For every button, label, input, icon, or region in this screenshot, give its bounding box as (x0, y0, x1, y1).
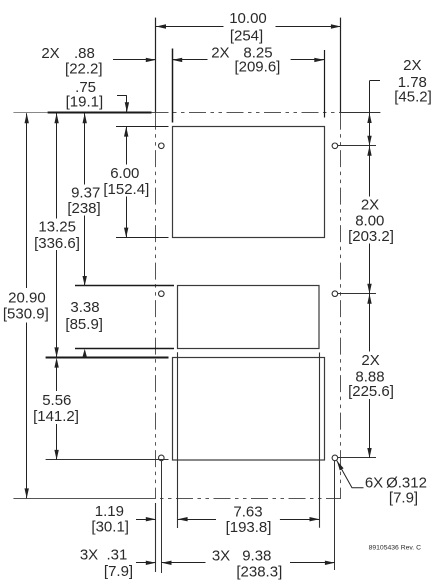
svg-text:3.38: 3.38 (70, 299, 99, 316)
right vertical centerline (340, 18, 342, 499)
label 2X 8.00 [203.2] (348, 197, 394, 246)
label 1.19 [30.1] (91, 503, 129, 536)
svg-text:2X: 2X (361, 197, 379, 214)
svg-text:[238.3]: [238.3] (236, 564, 282, 581)
extension line 8.25 right (vertical above rect1) (324, 50, 326, 118)
cutout rectangle 1 (top, 8.25 x 6.00) (173, 127, 325, 238)
svg-text:6.00: 6.00 (110, 165, 139, 182)
svg-text:[336.6]: [336.6] (34, 235, 80, 252)
svg-text:10.00: 10.00 (229, 10, 267, 27)
svg-text:[152.4]: [152.4] (103, 181, 149, 198)
label 3.38 [85.9] (65, 299, 103, 333)
extension line right hole row2 (338, 293, 376, 295)
extension line right hole row1 (338, 145, 376, 147)
extension line rect3 bottom to left (46, 459, 169, 461)
svg-text:89105436 Rev. C: 89105436 Rev. C (369, 544, 421, 551)
label 10.00 [254] (229, 10, 267, 45)
svg-text:[238]: [238] (67, 200, 100, 217)
leader .75 (117, 96, 129, 113)
label 20.90 [530.9] (3, 290, 49, 323)
svg-text:[85.9]: [85.9] (65, 316, 103, 333)
svg-text:[7.9]: [7.9] (389, 490, 418, 507)
extension line rect1 bottom to left (116, 237, 169, 239)
svg-text:[254]: [254] (230, 28, 263, 45)
extension line right hole column down (334, 461, 336, 570)
dim line 1.19 / 7.63 horizontal (136, 517, 320, 521)
svg-text:[193.8]: [193.8] (226, 519, 272, 536)
svg-text:3X: 3X (212, 548, 230, 565)
extension line from rect2 left corner down (7.63 dim) (177, 352, 179, 528)
top reference edge line (13, 112, 151, 114)
bottom reference edge line (13, 498, 151, 500)
label .75 [19.1] (66, 79, 104, 111)
svg-text:2X: 2X (361, 352, 379, 369)
label 5.56 [141.2] (33, 392, 79, 425)
svg-text:2X: 2X (403, 57, 421, 74)
svg-text:.88: .88 (74, 45, 95, 62)
cutout rectangle 2 (middle, 7.63 x 3.38) (178, 286, 320, 349)
extension line rect1 top to left (116, 126, 169, 128)
svg-text:[22.2]: [22.2] (65, 60, 103, 77)
label 2X 8.25 [209.6] (211, 45, 280, 76)
extension line right hole row3 (338, 457, 376, 459)
svg-text:[225.6]: [225.6] (348, 383, 394, 400)
svg-text:1.19: 1.19 (95, 503, 124, 520)
label 3X 9.38 [238.3] (212, 548, 282, 581)
svg-text:[203.2]: [203.2] (348, 228, 394, 245)
svg-text:[530.9]: [530.9] (3, 306, 49, 323)
hole mid-right (332, 291, 338, 297)
label 7.63 [193.8] (226, 504, 272, 536)
label 6.00 [152.4] (103, 165, 149, 198)
svg-text:[30.1]: [30.1] (91, 519, 129, 536)
extension line rect2 bottom to left (75, 348, 174, 350)
left vertical centerline (155, 18, 157, 572)
svg-text:[19.1]: [19.1] (66, 94, 104, 111)
dim line .88 horizontal (113, 58, 156, 62)
hole bottom-right (332, 455, 338, 461)
svg-text:[209.6]: [209.6] (234, 59, 280, 76)
label 3X .31 [7.9] (80, 547, 133, 581)
svg-text:[7.9]: [7.9] (104, 563, 133, 580)
svg-text:[141.2]: [141.2] (33, 408, 79, 425)
dim line 10.00 horizontal (156, 24, 341, 28)
dim line 20.90 vertical (25, 113, 29, 498)
label 13.25 [336.6] (34, 219, 80, 253)
svg-text:[45.2]: [45.2] (394, 89, 432, 106)
svg-text:2X: 2X (41, 45, 59, 62)
label 2X 1.78 [45.2] (394, 57, 432, 105)
dim line right column 1.78/8.00/8.88 (367, 81, 380, 459)
label 2X 8.88 [225.6] (348, 352, 394, 400)
hole top-left (159, 143, 165, 149)
dim line 9.37 vertical (83, 113, 87, 286)
hole bottom-left (159, 455, 165, 461)
dim arrow 3.38 bottom (outside, squeezed) (83, 349, 87, 357)
svg-text:9.38: 9.38 (242, 548, 271, 565)
svg-text:6X: 6X (365, 475, 383, 492)
svg-text:5.56: 5.56 (42, 392, 71, 409)
cutout rectangle 3 (bottom, 8.25 x 5.56) (173, 358, 325, 461)
leader 6X holes (337, 461, 364, 488)
hole mid-left (159, 291, 165, 297)
label 9.37 [238] (67, 185, 100, 217)
extension line rect3 top to left (thick) (46, 357, 169, 359)
extension line 8.25 left (vertical above rect1) (172, 49, 174, 123)
top horizontal centerline (dash-dot) (152, 112, 341, 114)
svg-text:20.90: 20.90 (8, 290, 46, 307)
hole top-right (332, 143, 338, 149)
bottom horizontal centerline (dash-dot) (151, 498, 341, 500)
extension line rect2 top to left (75, 285, 174, 287)
extension line from rect2 right corner down (7.63 dim) (319, 353, 321, 528)
label 2X .88 [22.2] (41, 45, 102, 78)
svg-text:.31: .31 (106, 547, 127, 564)
dim line .31 / 9.38 horizontal (136, 561, 335, 565)
label 6X dia .312 [7.9] (365, 475, 427, 507)
extension line left hole column down (161, 461, 163, 573)
dim line 8.25 horizontal (172, 58, 324, 62)
dim line 6.00 vertical (124, 127, 128, 238)
svg-text:2X: 2X (211, 45, 229, 62)
svg-text:3X: 3X (80, 547, 98, 564)
dim line 13.25 / 5.56 vertical (54, 113, 58, 460)
svg-text:13.25: 13.25 (38, 219, 76, 236)
top reference extension to right (341, 112, 381, 114)
